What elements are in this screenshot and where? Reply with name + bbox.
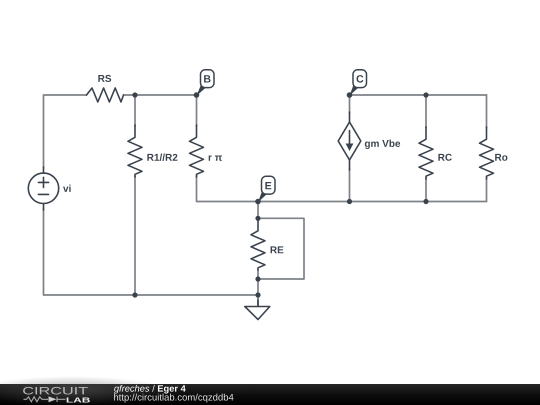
label Ro (495, 154, 507, 161)
resistor RS (87, 88, 124, 102)
node B junction (194, 92, 200, 98)
wire vi bottom to ground net (44, 209, 259, 295)
CircuitLab logo resistor and diode (24, 397, 66, 402)
resistor RC (419, 127, 433, 179)
junction bottom wire ground (255, 292, 260, 297)
wire R1//R2 bottom to ground net (134, 176, 136, 295)
resistor r pi (190, 125, 204, 177)
wire node B to R1//R2 top lead (134, 95, 136, 126)
junction RS R1//R2 (132, 92, 137, 97)
junction RC bottom (423, 199, 428, 204)
wire ground stub (257, 295, 259, 306)
wire RE bottom junction down (257, 270, 259, 295)
logo LAB (67, 398, 90, 403)
node E junction (255, 199, 261, 205)
wire node E to current source and RC Ro bottoms (258, 201, 487, 203)
wire RC bottom lead (425, 178, 427, 202)
label RS (98, 75, 111, 82)
letter E (265, 182, 271, 189)
label gm Vbe (365, 140, 400, 149)
junction RE bottom loop (255, 276, 260, 281)
label R1//R2 (147, 154, 177, 161)
footer url (114, 394, 233, 403)
current source gm Vbe (349, 112, 351, 122)
node E flag (258, 176, 275, 202)
label r pi (209, 155, 222, 160)
label RC (438, 154, 452, 161)
wire node C to current source top (349, 95, 351, 113)
voltage source vi (28, 173, 58, 203)
wire current source bottom to E net (349, 169, 351, 202)
label vi (63, 185, 71, 192)
resistor R1//R2 (128, 125, 142, 177)
wire short loop around RE (258, 218, 304, 279)
wire RS to node B (124, 94, 197, 96)
logo CIRCUIT (23, 387, 88, 395)
letter B (204, 75, 210, 82)
node C junction (347, 92, 353, 98)
footer title (114, 385, 186, 394)
resistor Ro (480, 127, 494, 179)
wire RC top lead (425, 95, 427, 128)
node C flag (350, 70, 367, 96)
wire Ro bottom lead (486, 178, 488, 202)
resistor RE (251, 220, 265, 270)
wire r pi bottom to node E (197, 176, 259, 202)
wire node E down to RE (257, 202, 259, 220)
junction RE top loop (255, 216, 260, 221)
junction RC top (423, 92, 428, 97)
ground (257, 300, 259, 307)
node B flag (197, 70, 215, 96)
label RE (271, 246, 284, 253)
letter C (357, 75, 364, 83)
junction R1//R2 bottom (132, 292, 137, 297)
wire Ro top lead (486, 95, 488, 128)
wire top node C to RC and Ro (350, 94, 487, 96)
junction current source bottom (347, 199, 352, 204)
wire node B down to r pi (196, 95, 198, 126)
wire vi top to RS (44, 95, 87, 168)
